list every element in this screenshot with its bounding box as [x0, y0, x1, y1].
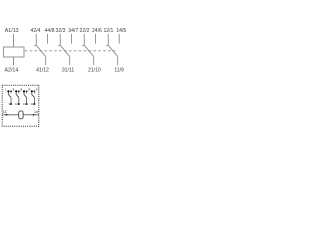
NO stub unit 1 — [10, 92, 12, 93]
terminal dot pin 1 — [7, 90, 9, 92]
contact blade 2 (changeover) — [84, 45, 94, 56]
terminal dot pin 9 — [10, 103, 12, 105]
NO stub unit 2 — [18, 92, 20, 93]
NC contact seat tick — [58, 44, 60, 46]
mini coil feed wire left (pin 13) — [2, 114, 19, 116]
NC stub unit 3 — [23, 92, 25, 94]
wire terminal 31 — [69, 57, 71, 66]
wire terminal 12 — [107, 34, 109, 45]
NO stub unit 4 — [33, 92, 35, 93]
wire terminal 11 — [117, 57, 119, 66]
mini coil — [19, 111, 23, 119]
coil K1 — [4, 47, 25, 57]
svg-text:14/5: 14/5 — [116, 28, 126, 34]
wire terminal 32 — [59, 34, 61, 45]
svg-text:11/9: 11/9 — [114, 68, 124, 74]
contact blade 1 (changeover) — [108, 45, 118, 56]
terminal dot pin 6 — [18, 90, 20, 92]
terminal dot pin 12 — [33, 103, 35, 105]
svg-text:44/8: 44/8 — [45, 28, 55, 34]
svg-text:31/11: 31/11 — [62, 68, 75, 74]
contact blade 3 (changeover) — [60, 45, 69, 56]
svg-text:21/10: 21/10 — [88, 68, 101, 74]
svg-text:12/1: 12/1 — [103, 28, 113, 34]
NC stub unit 1 — [7, 92, 9, 94]
NC contact seat tick — [82, 44, 84, 46]
terminal dot pin 13 — [6, 114, 8, 116]
contact blade 4 (changeover) — [36, 45, 46, 56]
terminal dot pin 4 — [31, 90, 33, 92]
wire A2 — [13, 57, 15, 65]
svg-text:41/12: 41/12 — [36, 68, 49, 74]
terminal dot pin 7 — [26, 90, 28, 92]
wire terminal 22 — [83, 34, 85, 45]
common wire unit 3 — [26, 97, 28, 103]
common wire unit 2 — [18, 97, 20, 103]
terminal dot pin 11 — [26, 103, 28, 105]
mini contact unit 2 — [13, 87, 23, 106]
common wire unit 1 — [10, 97, 12, 103]
relay outline box (dotted, bottom view) — [2, 85, 39, 126]
svg-text:22/2: 22/2 — [80, 28, 90, 34]
terminal dot pin 14 — [33, 114, 35, 116]
terminal dot pin 5 — [10, 90, 12, 92]
NO stub unit 3 — [26, 92, 28, 93]
svg-text:14: 14 — [34, 110, 38, 114]
terminal dot pin 8 — [33, 90, 35, 92]
wire terminal 21 — [93, 57, 95, 66]
svg-text:A1/13: A1/13 — [5, 28, 19, 34]
wire terminal 14 — [118, 34, 120, 44]
mini coil feed wire right (pin 14) — [23, 114, 39, 116]
svg-text:A2/14: A2/14 — [4, 68, 18, 74]
svg-text:34/7: 34/7 — [68, 28, 78, 34]
wire terminal 44 — [47, 34, 49, 44]
terminal dot pin 2 — [15, 90, 17, 92]
terminal dot pin 3 — [23, 90, 25, 92]
blade unit 4 — [32, 95, 35, 98]
svg-text:13: 13 — [3, 110, 7, 114]
svg-text:32/3: 32/3 — [56, 28, 66, 34]
mechanical linkage (dashed) — [25, 50, 117, 52]
NC contact seat tick — [106, 44, 108, 46]
wire terminal 24 — [95, 34, 97, 44]
wire terminal 42 — [35, 34, 37, 45]
terminal dot pin 10 — [18, 103, 20, 105]
mini contact unit 4 — [28, 87, 38, 106]
NC contact seat tick — [34, 44, 36, 46]
NC stub unit 4 — [31, 92, 33, 94]
wire terminal 34 — [71, 34, 73, 44]
blade unit 1 — [8, 95, 11, 98]
blade unit 2 — [16, 95, 19, 98]
blade unit 3 — [24, 95, 27, 98]
wire A1 — [13, 34, 15, 47]
svg-text:42/4: 42/4 — [31, 28, 41, 34]
NC stub unit 2 — [15, 92, 17, 94]
common wire unit 4 — [33, 97, 35, 103]
svg-text:24/6: 24/6 — [92, 28, 102, 34]
mini contact unit 1 — [5, 87, 15, 106]
mini contact unit 3 — [21, 87, 31, 106]
wire terminal 41 — [45, 57, 47, 66]
